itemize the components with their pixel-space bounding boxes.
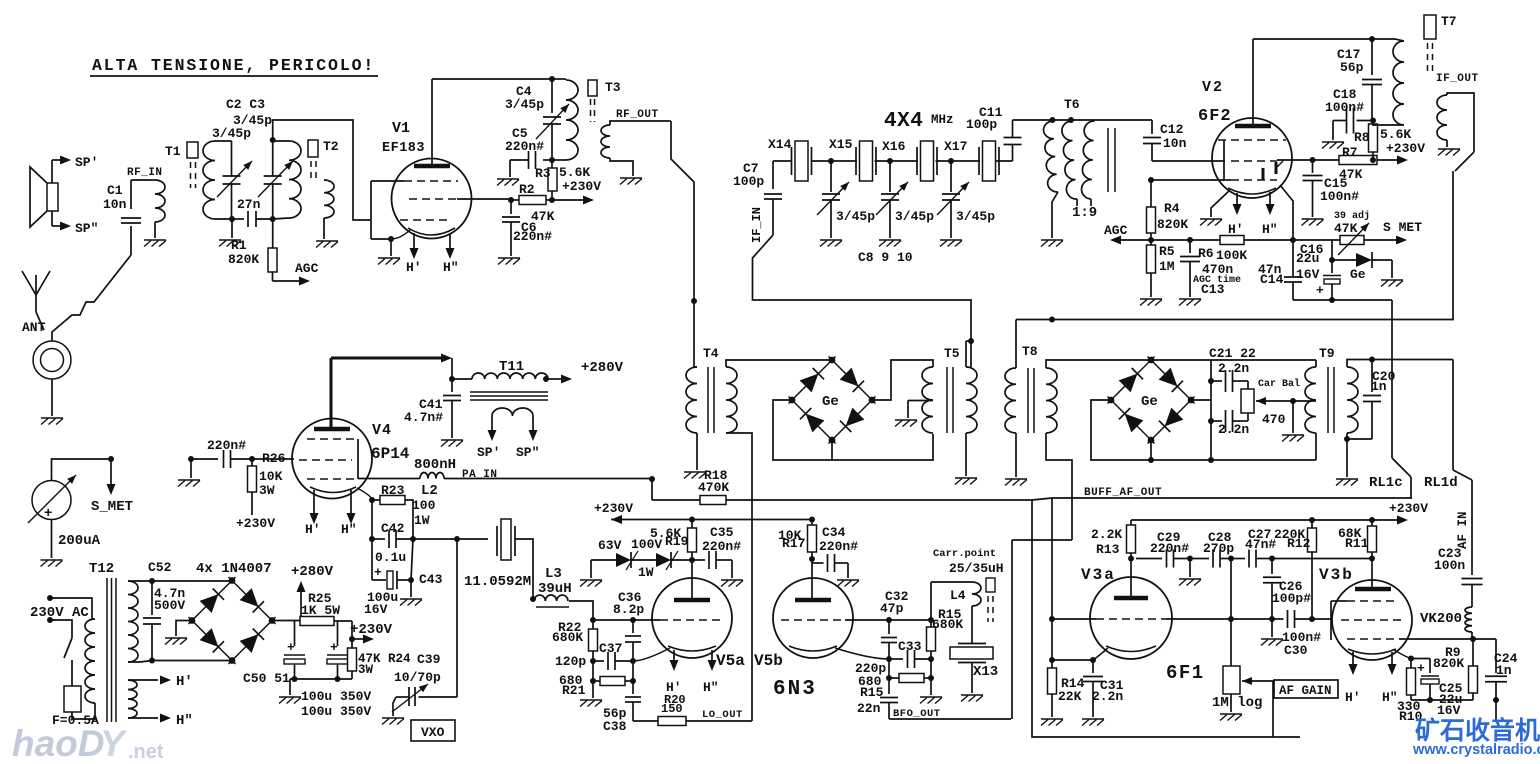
svg-text:L3: L3 [545, 566, 562, 582]
crystal X13 [971, 606, 973, 643]
V4 cathode tap wire [357, 488, 372, 500]
svg-text:T3: T3 [605, 80, 621, 95]
capacitor C25 22u electrolytic [1411, 658, 1430, 660]
svg-text:5.6K: 5.6K [559, 165, 590, 180]
V2 anode top wire [1253, 38, 1372, 40]
resistor R13 2.2K [1130, 520, 1132, 525]
svg-text:C43: C43 [419, 572, 443, 587]
resistor R9 820K [1472, 639, 1474, 666]
svg-text:H": H" [1382, 690, 1398, 705]
svg-text:RF_OUT: RF_OUT [616, 109, 659, 121]
V5a heater H2 [711, 650, 713, 662]
wire bridge2 top to T9 [1151, 359, 1316, 361]
node C14 [1244, 239, 1293, 241]
svg-text:SP': SP' [477, 445, 500, 460]
svg-text:R4: R4 [1164, 201, 1180, 216]
node AC2 [47, 617, 53, 623]
svg-text:IF_OUT: IF_OUT [1436, 73, 1479, 85]
wire bridge out [272, 620, 300, 622]
T12 core lines [106, 578, 108, 722]
capacitor C34 220n# [811, 559, 813, 563]
wire BFO riser [1011, 540, 1013, 719]
svg-text:H": H" [1262, 222, 1278, 237]
varcap C4 C5 [551, 79, 553, 113]
svg-text:X14: X14 [768, 137, 792, 152]
capacitor C38 56p [632, 681, 634, 694]
svg-text:100u 350V: 100u 350V [301, 689, 371, 704]
svg-text:+280V: +280V [291, 564, 334, 580]
svg-text:3/45p: 3/45p [895, 209, 934, 224]
svg-text:Ge: Ge [1141, 394, 1158, 410]
node AGC [1150, 233, 1152, 240]
T1 tuned coil 2 [289, 141, 301, 218]
V5b anode bar [795, 598, 831, 603]
meter S_MET [32, 481, 71, 520]
svg-text:C35: C35 [710, 525, 734, 540]
svg-text:H': H' [406, 260, 422, 275]
wire AC2 switch fuse [50, 620, 72, 638]
T12 HV top wire [128, 580, 152, 582]
T9 core lines [1327, 367, 1329, 433]
wire PA_IN node down [649, 476, 655, 482]
svg-text:1n: 1n [1371, 379, 1387, 394]
svg-text:MHz: MHz [931, 113, 954, 127]
svg-text:22n: 22n [857, 701, 881, 716]
node X16-X17 [936, 160, 981, 162]
svg-text:47K: 47K [1334, 221, 1358, 236]
svg-text:Y: Y [100, 723, 128, 764]
resistor R2 [511, 199, 519, 201]
wire +230V R2 node [551, 191, 553, 200]
svg-text:100p#: 100p# [1272, 591, 1311, 606]
svg-text:3W: 3W [358, 663, 374, 677]
capacitor C15 [1310, 157, 1316, 163]
speaker SP [47, 183, 58, 211]
heater H2 arrow [128, 717, 158, 719]
V5a cathode arc [668, 646, 716, 651]
crystal X15 [855, 147, 857, 175]
T4 left bottom ground [696, 433, 698, 470]
trimmer C8 [830, 161, 832, 192]
arrow +280V T11 [543, 376, 549, 382]
svg-text:100: 100 [412, 498, 436, 513]
svg-text:1W: 1W [414, 513, 430, 528]
resistor R17 10K [809, 517, 815, 523]
ground pot [1230, 694, 1232, 712]
svg-text:1W: 1W [638, 565, 654, 580]
svg-text:H': H' [305, 522, 321, 537]
V5a cathode out wire [633, 648, 670, 661]
wire C11 to T6 top [1013, 119, 1153, 121]
wire C21 C22 node vertical [1210, 360, 1212, 460]
svg-text:BFO_OUT: BFO_OUT [893, 708, 941, 720]
node junction T1 bottom [229, 216, 235, 222]
svg-text:+280V: +280V [581, 360, 624, 376]
V2 heater H1 [1236, 193, 1238, 206]
wire AC1 to primary [50, 598, 92, 619]
arrow AGC left [1121, 239, 1151, 241]
L4 core [986, 578, 995, 592]
svg-text:C50 51: C50 51 [243, 671, 290, 686]
svg-text:1M: 1M [1159, 259, 1175, 274]
svg-text:X17: X17 [944, 139, 967, 154]
capacitor C11 [995, 160, 1013, 162]
svg-text:1M log: 1M log [1212, 695, 1262, 711]
wire C14 bottom to relay line [1293, 299, 1332, 301]
svg-text:haoD: haoD [12, 723, 105, 764]
svg-text:10n: 10n [103, 197, 127, 212]
wire to V4 grid [252, 458, 294, 460]
node X15-X16 [875, 160, 919, 162]
svg-text:100p: 100p [733, 174, 764, 189]
svg-text:4X4: 4X4 [884, 110, 923, 133]
node V3a anode [1130, 553, 1132, 559]
V2 anode bar [1235, 124, 1271, 129]
bridge2 bottom wire to T9 [1211, 459, 1316, 461]
svg-text:1:9: 1:9 [1072, 205, 1097, 221]
svg-text:R23: R23 [381, 483, 405, 498]
capacitor C22 2.2n [1211, 420, 1222, 422]
svg-text:T9: T9 [1319, 346, 1335, 361]
V4 heater H1 [313, 490, 315, 515]
ground C43 [410, 580, 412, 597]
zener diodes 63V 100V [590, 560, 592, 578]
svg-text:PA_IN: PA_IN [462, 469, 498, 481]
svg-text:8.2p: 8.2p [613, 602, 644, 617]
svg-text:RF_IN: RF_IN [127, 167, 163, 179]
V2 pentode grid dashed [1231, 160, 1277, 162]
svg-text:3/45p: 3/45p [212, 126, 251, 141]
T3 secondary coil RF_OUT [601, 125, 610, 158]
svg-text:1n: 1n [1496, 663, 1512, 678]
svg-text:S_MET: S_MET [91, 499, 133, 515]
bridge1 right wire to T5 [872, 360, 933, 400]
svg-text:+230V: +230V [594, 501, 633, 516]
svg-text:T7: T7 [1441, 14, 1457, 29]
wire down to RL1c [1391, 300, 1393, 458]
ground T2 [316, 240, 338, 242]
capacitor C20 1n [1371, 360, 1373, 393]
capacitor C36 8.2p [632, 620, 634, 633]
coil antenna link [155, 180, 165, 222]
svg-text:R2: R2 [519, 182, 535, 197]
transformer T6 winding 3 [1082, 121, 1095, 199]
svg-text:63V: 63V [598, 538, 622, 553]
ground R21 [592, 681, 594, 698]
V3b left box [1331, 600, 1347, 602]
capacitor C5 body [543, 159, 552, 161]
svg-text:V1: V1 [392, 120, 410, 137]
T9 right winding [1347, 367, 1358, 433]
V2 heater H2 [1269, 192, 1271, 206]
crystal X16 [916, 147, 918, 175]
ground bridge left [176, 621, 192, 637]
T5 right bottom ground [965, 433, 967, 476]
wire BFO_OUT [889, 718, 1011, 720]
capacitor C29 220n# [1166, 550, 1168, 568]
trimmer C3 [264, 175, 282, 177]
svg-text:C52: C52 [148, 560, 172, 575]
resistor R10 330 [1410, 659, 1412, 669]
switch RL1d [1452, 360, 1454, 471]
transformer T1 core [187, 142, 198, 158]
wire crystal to L3 [515, 539, 533, 599]
transformer T4 left winding [686, 367, 697, 433]
arrow S MET [1364, 239, 1396, 241]
V2 g1 in wire [1151, 179, 1224, 181]
wire bottom cathode bus [1411, 699, 1473, 701]
capacitor C43 100u 16V [371, 539, 373, 580]
svg-text:R17: R17 [782, 536, 805, 551]
T11 core lines [470, 391, 548, 393]
capacitor C42 0.1u [369, 536, 375, 542]
svg-text:V3a: V3a [1081, 566, 1116, 584]
V4 heater H2 [350, 490, 352, 515]
capacitor C18 [1357, 120, 1374, 122]
svg-text:10K: 10K [259, 469, 283, 484]
capacitor C17 [1369, 36, 1375, 42]
T7 secondary bottom ground [1446, 140, 1448, 147]
diode Ge S-meter [1332, 259, 1356, 261]
svg-text:220n#: 220n# [1150, 541, 1189, 556]
V3a grid dashed [1096, 618, 1166, 620]
bridge2 right wire [1192, 399, 1211, 401]
tube V5b [773, 578, 853, 658]
svg-text:4x 1N4007: 4x 1N4007 [196, 561, 272, 577]
ground grid input [178, 479, 200, 481]
tube V5a [652, 578, 732, 658]
capacitor C33 [889, 658, 903, 660]
wire grid V1 [273, 120, 371, 220]
svg-text:VK200: VK200 [1420, 611, 1462, 627]
svg-text:500V: 500V [154, 598, 185, 613]
potentiometer Car Bal 470 [1241, 389, 1254, 413]
arrow S_MET down [110, 459, 112, 486]
wire BFO link horizontal [1012, 539, 1072, 541]
T5 right winding [966, 367, 977, 433]
capacitor C16 22u electrolytic [1331, 260, 1333, 273]
bridge2 left loop wire [1091, 400, 1211, 460]
svg-text:AGC: AGC [1104, 223, 1128, 238]
svg-text:SP": SP" [75, 221, 98, 236]
crystal X14 [773, 160, 792, 162]
svg-text:T6: T6 [1064, 97, 1080, 112]
T12 primary winding [85, 619, 95, 703]
T8 left top wire [1015, 320, 1017, 369]
svg-text:RL1d: RL1d [1424, 475, 1458, 491]
coil T7 primary [1393, 41, 1404, 125]
svg-text:C33: C33 [898, 639, 922, 654]
T5 center tap ground [908, 400, 933, 402]
svg-text:3/45p: 3/45p [956, 209, 995, 224]
svg-text:11.0592M: 11.0592M [464, 574, 531, 590]
potentiometer 1M log [1223, 666, 1240, 694]
bridge1 bottom stub [831, 440, 833, 460]
T6 core lines [1107, 128, 1109, 192]
svg-text:+: + [1417, 661, 1425, 676]
capacitor C35 220n# [692, 559, 705, 561]
wire antenna switch RL1a [52, 255, 131, 341]
wire L3 to R22 node [569, 601, 593, 620]
node RF line [691, 298, 697, 304]
svg-text:SP": SP" [516, 445, 539, 460]
bridge1 left loop wire [773, 400, 933, 460]
ground R5 [1140, 298, 1162, 300]
resistor R6 100K [1190, 239, 1220, 241]
svg-text:RL1c: RL1c [1369, 475, 1403, 491]
arrow +230V V1 [552, 199, 585, 201]
wire RF_IN [131, 179, 151, 181]
svg-text:6F1: 6F1 [1166, 662, 1205, 684]
T4 right top wire to bridge [726, 360, 832, 367]
svg-text:25/35uH: 25/35uH [949, 561, 1004, 576]
V4 cathode arc [310, 487, 356, 493]
node 120p [592, 651, 594, 661]
svg-text:4.7n#: 4.7n# [404, 410, 443, 425]
svg-text:L2: L2 [421, 483, 438, 499]
capacitor 220n# V4 grid [191, 458, 218, 460]
svg-text:R7: R7 [1342, 145, 1358, 160]
V3b heater H2 [1391, 652, 1393, 666]
svg-text:R21: R21 [562, 683, 586, 698]
V3a cathode arc [1106, 646, 1156, 652]
diode bridge PSU [188, 577, 235, 624]
node junction tank2 bottom [270, 216, 276, 222]
svg-text:R12: R12 [1287, 536, 1311, 551]
resistor R8 [1369, 124, 1378, 152]
trimmer C9 [889, 161, 891, 192]
resistor R21 680 [590, 678, 596, 684]
V1 grid2 dashed [409, 198, 457, 200]
svg-text:56p: 56p [1340, 60, 1364, 75]
V3b grid dashed [1341, 619, 1403, 621]
svg-text:T11: T11 [499, 359, 524, 375]
svg-text:820K: 820K [228, 252, 259, 267]
resistor R1 [272, 219, 274, 248]
V3a grid left wire [1052, 618, 1096, 620]
svg-text:47p: 47p [880, 601, 904, 616]
potentiometer 39 adj 47K [1340, 236, 1364, 245]
node T9 right bottom [1346, 433, 1348, 439]
T9 left bottom wire [1315, 433, 1317, 460]
svg-text:200uA: 200uA [58, 533, 101, 549]
T4 core lines [707, 367, 709, 433]
ground V1 cathode [378, 257, 400, 259]
svg-text:3/45p: 3/45p [505, 97, 544, 112]
node R8 top [1370, 118, 1376, 124]
wire IF_IN switch down [753, 235, 972, 367]
V3b lower grid out wire [1399, 638, 1473, 640]
wire R18 line BUFF [652, 499, 700, 501]
tube V1 EF183 [392, 159, 472, 239]
capacitor C21 2.2n [1211, 380, 1222, 382]
capacitor C14 47n [1284, 276, 1302, 278]
capacitor C23 100n [1462, 578, 1483, 580]
T9 right top wire [1347, 360, 1453, 368]
wire pot return to BUFF [1032, 500, 1300, 737]
V3a anode bar [1114, 596, 1148, 601]
V1 anode wire [431, 79, 433, 164]
transformer T8 left winding [1005, 368, 1016, 433]
capacitor C6 [510, 200, 512, 214]
T4 right winding [726, 367, 737, 433]
svg-text:BUFF_AF_OUT: BUFF_AF_OUT [1084, 487, 1162, 499]
svg-text:220n#: 220n# [702, 539, 741, 554]
svg-text:2.2n: 2.2n [1218, 361, 1249, 376]
svg-text:47K: 47K [1339, 167, 1363, 182]
coil L4 [972, 582, 981, 606]
node R6 C13 [1151, 239, 1190, 241]
svg-text:R26: R26 [262, 451, 286, 466]
svg-text:22u: 22u [1296, 251, 1319, 266]
node V5a anode [689, 557, 695, 563]
V3a pot line [1231, 618, 1272, 620]
svg-text:5.6K: 5.6K [1380, 127, 1411, 142]
V4 grid2 dashed [299, 459, 352, 461]
svg-text:AF IN: AF IN [1456, 511, 1470, 549]
V1 grid2 out wire [457, 198, 511, 200]
resistor R22 680K [589, 629, 598, 651]
wire V3a output network [1136, 558, 1162, 560]
svg-text:H": H" [703, 680, 719, 695]
svg-text:100V: 100V [631, 537, 662, 552]
svg-text:C34: C34 [822, 525, 846, 540]
transformer T2 core [308, 140, 318, 157]
svg-text:H": H" [341, 522, 357, 537]
svg-text:C42: C42 [381, 521, 405, 536]
capacitor C31 2.2n [1092, 660, 1094, 673]
tube V2 6F2 [1212, 118, 1292, 198]
svg-text:C12: C12 [1160, 122, 1184, 137]
svg-text:2.2n: 2.2n [1218, 422, 1249, 437]
switch RL1b IF_OUT [1455, 152, 1474, 171]
T8 left bottom ground [1015, 433, 1017, 477]
V1 heater H2 arrow [449, 233, 451, 250]
svg-text:S MET: S MET [1383, 220, 1422, 235]
svg-text:Ge: Ge [1350, 267, 1366, 282]
box VXO [411, 720, 455, 741]
resistor R19 5.6K [689, 517, 695, 523]
resistor R15b 680 [886, 675, 892, 681]
svg-text:10/70p: 10/70p [394, 670, 441, 685]
V2 cathode arc [1228, 188, 1276, 194]
svg-text:6P14: 6P14 [371, 445, 410, 463]
svg-text:16V: 16V [364, 602, 388, 617]
V5a anode bar [674, 598, 710, 603]
svg-text:ALTA TENSIONE, PERICOLO!: ALTA TENSIONE, PERICOLO! [92, 56, 375, 75]
svg-text:680K: 680K [932, 617, 963, 632]
svg-text:+: + [287, 640, 295, 655]
antenna ANT [35, 275, 37, 312]
svg-text:H': H' [1345, 690, 1361, 705]
svg-text:16V: 16V [1296, 267, 1320, 282]
svg-text:C14: C14 [1260, 272, 1284, 287]
svg-text:T1: T1 [165, 144, 181, 159]
V3b cathode out wire [1394, 650, 1411, 659]
svg-text:470: 470 [1262, 412, 1286, 427]
svg-text:X13: X13 [973, 664, 998, 680]
svg-text:100K: 100K [1216, 248, 1247, 263]
svg-text:100n#: 100n# [1325, 100, 1364, 115]
coil L3 39uH [534, 595, 568, 601]
wire C12 to V2 grid [1152, 160, 1225, 162]
svg-text:220n#: 220n# [207, 438, 246, 453]
antenna connector [33, 341, 71, 379]
node AC1 [47, 595, 53, 601]
svg-text:100p: 100p [966, 117, 997, 132]
ground under R15b [930, 678, 932, 695]
V2 g2 out wire [1277, 159, 1313, 161]
